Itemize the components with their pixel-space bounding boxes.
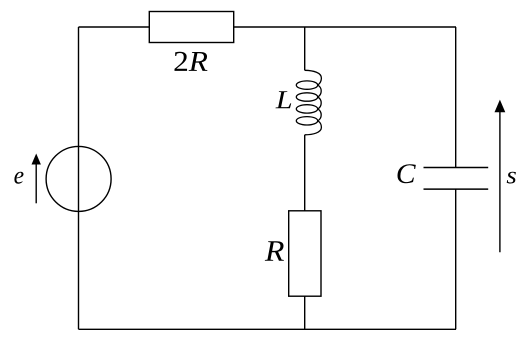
capacitor C bottom plate xyxy=(424,188,489,190)
inductor L connector 1-2 xyxy=(318,85,322,97)
inductor L loop 1 xyxy=(296,81,317,89)
capacitor C top plate xyxy=(424,167,489,169)
arrow e (source arrow) xyxy=(32,154,41,204)
inductor L top hook xyxy=(305,70,322,85)
wire right vertical upper (top to capacitor) xyxy=(455,27,457,168)
wire right vertical lower (capacitor to bottom) xyxy=(455,189,457,329)
inductor L loop 3 xyxy=(296,105,317,113)
label 2R xyxy=(175,52,208,71)
inductor L (coil) xyxy=(296,70,321,135)
wire left vertical (through source) xyxy=(78,27,80,329)
wire bottom horizontal xyxy=(79,328,457,330)
inductor L connector 3-4 xyxy=(318,109,322,121)
arrow s (output arrow) xyxy=(495,100,506,253)
inductor L connector 2-3 xyxy=(318,97,322,109)
wire middle branch lower (resistor R to bottom) xyxy=(304,296,306,329)
voltage source e (circle) xyxy=(46,146,111,211)
inductor L loop 2 xyxy=(296,93,317,101)
resistor R (box) xyxy=(289,211,321,296)
wire middle branch between inductor and resistor R xyxy=(304,135,306,211)
label C xyxy=(398,164,416,183)
wire top horizontal xyxy=(79,26,457,28)
resistor 2R (box) xyxy=(149,12,233,43)
label L xyxy=(276,91,292,108)
inductor L bottom hook xyxy=(305,121,322,135)
wire middle branch upper (top to inductor) xyxy=(304,27,306,70)
label s xyxy=(507,172,516,184)
label e xyxy=(14,172,23,184)
label R xyxy=(265,241,284,261)
inductor L loop 4 xyxy=(296,117,317,125)
